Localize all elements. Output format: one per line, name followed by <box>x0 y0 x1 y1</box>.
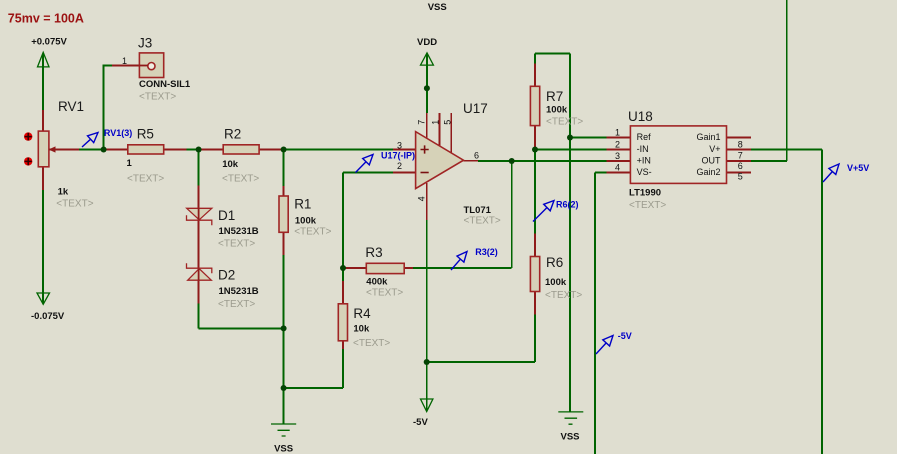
svg-text:8: 8 <box>738 139 743 149</box>
svg-text:J3: J3 <box>138 36 152 51</box>
svg-text:1: 1 <box>127 158 133 169</box>
svg-text:5: 5 <box>738 172 743 182</box>
svg-text:10k: 10k <box>222 159 239 170</box>
svg-text:D1: D1 <box>218 208 235 223</box>
svg-text:1N5231B: 1N5231B <box>219 286 259 297</box>
svg-text:U17(-IP): U17(-IP) <box>381 151 415 161</box>
svg-text:4: 4 <box>615 163 620 173</box>
svg-text:-IN: -IN <box>637 144 649 154</box>
svg-text:Ref: Ref <box>637 132 652 142</box>
svg-text:75mv = 100A: 75mv = 100A <box>8 11 84 25</box>
svg-text:OUT: OUT <box>702 155 722 165</box>
svg-text:D2: D2 <box>218 268 235 283</box>
svg-text:R6: R6 <box>546 255 563 270</box>
svg-text:VSS: VSS <box>274 444 293 454</box>
svg-text:1: 1 <box>431 120 441 125</box>
svg-text:R1: R1 <box>294 197 311 212</box>
svg-text:<TEXT>: <TEXT> <box>464 216 501 227</box>
svg-text:-0.075V: -0.075V <box>31 311 65 322</box>
svg-text:6: 6 <box>474 151 479 161</box>
svg-text:1N5231B: 1N5231B <box>219 226 259 237</box>
svg-text:R5: R5 <box>137 126 154 141</box>
svg-text:-5V: -5V <box>413 417 428 428</box>
svg-text:R3(2): R3(2) <box>475 247 498 257</box>
svg-text:<TEXT>: <TEXT> <box>218 299 255 310</box>
svg-text:6: 6 <box>738 161 743 171</box>
svg-text:3: 3 <box>397 141 402 151</box>
svg-text:<TEXT>: <TEXT> <box>545 290 582 301</box>
svg-text:RV1(3): RV1(3) <box>104 128 132 138</box>
svg-text:10k: 10k <box>353 324 370 335</box>
svg-text:1k: 1k <box>58 187 69 198</box>
svg-text:2: 2 <box>615 139 620 149</box>
svg-text:+0.075V: +0.075V <box>31 37 67 48</box>
svg-text:LT1990: LT1990 <box>629 188 661 199</box>
svg-text:R6(2): R6(2) <box>556 200 579 210</box>
svg-text:V+: V+ <box>709 144 720 154</box>
svg-text:V+5V: V+5V <box>847 163 869 173</box>
svg-text:VS-: VS- <box>637 167 652 177</box>
svg-text:RV1: RV1 <box>58 99 84 114</box>
svg-text:100k: 100k <box>295 216 317 227</box>
svg-text:100k: 100k <box>546 105 568 116</box>
svg-text:400k: 400k <box>366 276 388 287</box>
svg-text:<TEXT>: <TEXT> <box>353 338 390 349</box>
svg-text:100k: 100k <box>545 277 567 288</box>
svg-text:R3: R3 <box>365 245 382 260</box>
svg-text:4: 4 <box>417 196 427 201</box>
svg-text:<TEXT>: <TEXT> <box>218 239 255 250</box>
svg-text:-5V: -5V <box>618 331 632 341</box>
svg-text:<TEXT>: <TEXT> <box>294 227 331 238</box>
svg-text:2: 2 <box>397 161 402 171</box>
svg-text:<TEXT>: <TEXT> <box>56 199 93 210</box>
svg-text:VSS: VSS <box>428 2 447 13</box>
svg-text:5: 5 <box>442 120 452 125</box>
svg-text:7: 7 <box>738 150 743 160</box>
svg-text:<TEXT>: <TEXT> <box>222 174 259 185</box>
svg-text:3: 3 <box>615 151 620 161</box>
svg-text:R2: R2 <box>224 126 241 141</box>
svg-text:1: 1 <box>615 128 620 138</box>
svg-text:CONN-SIL1: CONN-SIL1 <box>139 79 191 90</box>
svg-text:1: 1 <box>122 56 127 66</box>
svg-text:R7: R7 <box>546 89 563 104</box>
svg-text:VDD: VDD <box>417 37 437 48</box>
svg-text:R4: R4 <box>353 306 371 321</box>
svg-text:U17: U17 <box>463 101 488 116</box>
svg-text:7: 7 <box>417 120 427 125</box>
svg-text:<TEXT>: <TEXT> <box>629 200 666 211</box>
svg-text:Gain1: Gain1 <box>696 132 720 142</box>
svg-text:<TEXT>: <TEXT> <box>366 288 403 299</box>
svg-text:<TEXT>: <TEXT> <box>139 92 176 103</box>
svg-text:U18: U18 <box>628 109 653 124</box>
svg-text:+IN: +IN <box>637 155 651 165</box>
svg-text:<TEXT>: <TEXT> <box>127 174 164 185</box>
svg-text:VSS: VSS <box>560 432 579 443</box>
svg-text:TL071: TL071 <box>464 205 492 216</box>
svg-text:<TEXT>: <TEXT> <box>546 117 583 128</box>
svg-text:Gain2: Gain2 <box>696 167 720 177</box>
